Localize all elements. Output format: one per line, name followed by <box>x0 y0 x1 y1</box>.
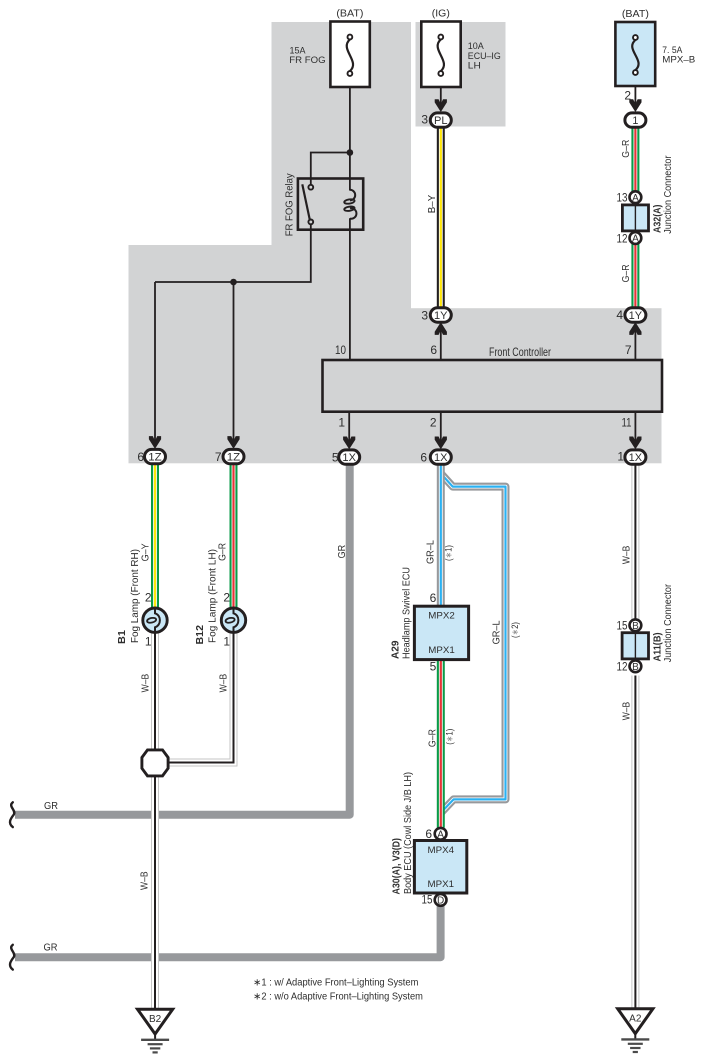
wire fuse ECU-IG to connector PL <box>440 76 442 105</box>
svg-text:B1: B1 <box>117 630 128 644</box>
body ECU A30 pin A circle <box>435 828 447 841</box>
arrow into connector PL <box>435 99 447 112</box>
svg-text:1Z: 1Z <box>227 452 241 464</box>
ground B2 <box>138 1009 173 1052</box>
svg-text:15: 15 <box>422 893 433 907</box>
junction dot at relay feed <box>347 149 354 156</box>
wire GR from Body ECU pin D to left harness (horizontal run) <box>15 906 441 958</box>
wire G-Y from front controller 1Z-6 to fog lamp B1 <box>151 462 159 608</box>
svg-text:W–B: W–B <box>620 702 632 721</box>
svg-text:GR: GR <box>44 941 58 953</box>
arrow into 1Z-7 <box>227 436 239 449</box>
svg-text:MPX–B: MPX–B <box>662 55 695 66</box>
svg-text:Junction Connector: Junction Connector <box>663 155 674 234</box>
svg-text:G–R: G–R <box>620 139 632 157</box>
wire G-R from junction connector A32 pin 12 to front controller 1Y-4 <box>631 244 639 308</box>
svg-text:B12: B12 <box>195 625 206 645</box>
svg-text:2: 2 <box>624 89 631 103</box>
connector oval 1X (pin 1) <box>625 450 646 464</box>
arrow into 1Z-6 <box>149 436 161 449</box>
shaded harness region (10A ECU-IG fuse) <box>416 22 506 127</box>
wire G-R from fuse MPX-B oval 1 to junction connector A32 pin 13 <box>631 127 639 192</box>
svg-text:GR–L: GR–L <box>491 620 503 644</box>
svg-text:1: 1 <box>223 634 230 648</box>
svg-text:2: 2 <box>145 591 152 605</box>
arrow into 1X-6 <box>435 437 447 450</box>
wire branch to connector 1Z-7 (fog lamp LH) <box>233 282 235 442</box>
shaded harness region (15A fuse / relay column) <box>272 22 412 463</box>
svg-text:3: 3 <box>421 308 428 322</box>
svg-text:11: 11 <box>622 416 632 430</box>
svg-text:5: 5 <box>430 660 437 674</box>
svg-text:1Z: 1Z <box>148 452 162 464</box>
svg-text:A11(B): A11(B) <box>652 633 663 662</box>
svg-text:B2: B2 <box>149 1014 162 1025</box>
wire relay junction to switch pin (top) <box>311 153 350 185</box>
fuse 10A ECU-IG LH box <box>421 22 460 88</box>
svg-text:Fog Lamp (Front RH): Fog Lamp (Front RH) <box>130 549 141 643</box>
svg-text:(∗1): (∗1) <box>445 729 455 745</box>
arrow into 1X-1 <box>629 437 641 450</box>
junction connector A32(A) pin 13 circle <box>630 191 642 204</box>
svg-text:1 : w/ Adaptive Front–Lighting: 1 : w/ Adaptive Front–Lighting System <box>261 978 418 989</box>
svg-text:W–B: W–B <box>139 871 151 890</box>
svg-text:6: 6 <box>430 343 437 357</box>
svg-text:∗: ∗ <box>253 991 261 1002</box>
svg-text:1X: 1X <box>629 452 643 464</box>
wire relay switch out to left branch node <box>155 224 311 282</box>
wire G-R (*1) from Headlamp Swivel ECU pin 5 to Body ECU pin A <box>437 658 445 828</box>
svg-text:G–R: G–R <box>427 729 439 747</box>
label 10A ECU-IG LH <box>468 41 501 71</box>
connector oval 1Z (pin 6) <box>145 449 166 463</box>
wire G-R from front controller 1Z-7 to fog lamp B12 <box>230 462 238 608</box>
svg-text:15: 15 <box>617 619 628 633</box>
svg-text:13: 13 <box>617 191 628 205</box>
shaded harness region (front controller band) <box>411 308 662 463</box>
ground A2 <box>618 1009 653 1052</box>
connector oval 1X (pin 5) <box>339 450 360 464</box>
svg-text:∗: ∗ <box>253 978 261 989</box>
svg-text:1Y: 1Y <box>434 310 448 322</box>
svg-text:3: 3 <box>421 113 428 127</box>
svg-text:Headlamp Swivel ECU: Headlamp Swivel ECU <box>401 567 412 659</box>
svg-text:1: 1 <box>617 449 624 463</box>
svg-text:2: 2 <box>223 591 230 605</box>
body ECU A30(A) V3(D) box <box>414 841 466 894</box>
svg-text:Front Controller: Front Controller <box>489 345 551 359</box>
svg-text:12: 12 <box>617 660 628 674</box>
svg-text:PL: PL <box>434 115 448 127</box>
fuse 15A FR FOG element <box>347 35 353 76</box>
body ECU A30 pin D circle <box>435 894 447 907</box>
connector oval 1 below fuse MPX-B <box>625 113 646 127</box>
wire 1Y-3 to front controller pin 6 <box>440 329 442 360</box>
svg-text:B–Y: B–Y <box>426 195 438 213</box>
svg-text:B: B <box>632 662 639 673</box>
wire fuse MPX-B to connector oval 1 <box>634 74 636 105</box>
svg-text:FR FOG: FR FOG <box>289 55 325 66</box>
junction connector A11(B) box <box>622 633 648 659</box>
wire GR-L (*1) from front controller 1X-6 to Headlamp Swivel ECU pin 6 <box>437 463 445 608</box>
svg-text:Body ECU (Cowl Side J/B LH): Body ECU (Cowl Side J/B LH) <box>403 772 414 894</box>
svg-text:(BAT): (BAT) <box>336 7 363 19</box>
svg-text:A: A <box>632 193 639 204</box>
W-B junction octagon <box>142 750 168 776</box>
connector oval 1Z (pin 7) <box>223 449 244 463</box>
svg-text:GR: GR <box>44 800 58 812</box>
junction connector A32(A) pin 12 circle <box>630 232 642 245</box>
svg-text:W–B: W–B <box>620 546 632 565</box>
connector oval PL (pin 3) <box>430 113 451 127</box>
svg-text:(BAT): (BAT) <box>622 8 649 20</box>
wire 1Y-4 to front controller pin 7 <box>634 329 636 360</box>
wire relay coil to front controller pin 10 <box>349 218 351 360</box>
wire label GR-L (*2) <box>491 620 521 644</box>
svg-text:6: 6 <box>137 450 144 464</box>
svg-text:A2: A2 <box>629 1013 642 1024</box>
fuse 7.5A MPX-B element <box>632 35 638 75</box>
junction connector A32(A) box <box>622 205 648 231</box>
svg-text:1Y: 1Y <box>629 310 643 322</box>
svg-text:G–Y: G–Y <box>140 543 152 561</box>
svg-text:10: 10 <box>335 343 346 357</box>
svg-text:4: 4 <box>616 308 623 322</box>
wire label GR-L (*1) <box>425 540 454 564</box>
fuse 7.5A MPX-B box <box>615 22 655 86</box>
svg-text:1: 1 <box>632 115 638 127</box>
svg-text:1X: 1X <box>434 452 448 464</box>
svg-text:LH: LH <box>468 61 481 72</box>
junction dot at left branch <box>230 279 237 286</box>
svg-text:GR–L: GR–L <box>425 540 437 564</box>
arrow into 1X-5 <box>343 437 355 450</box>
svg-text:GR: GR <box>336 544 348 558</box>
svg-text:2: 2 <box>430 416 437 430</box>
svg-text:7: 7 <box>215 450 222 464</box>
wire GR from front controller 1X-5 to left harness (horizontal run) <box>15 463 350 815</box>
wire W-B from fog lamp B12 to W-B junction <box>168 633 234 763</box>
fog lamp B12 bulb <box>221 608 245 633</box>
arrow into connector 1 (MPX-B) <box>629 99 641 112</box>
svg-text:A: A <box>632 234 639 245</box>
wire front controller pin 1 to 1X-5 <box>348 412 350 444</box>
relay FR FOG box <box>298 179 363 230</box>
svg-text:G–R: G–R <box>620 264 632 282</box>
svg-text:W–B: W–B <box>218 674 230 693</box>
svg-text:W–B: W–B <box>140 674 152 693</box>
svg-text:B: B <box>632 621 639 632</box>
svg-text:6: 6 <box>430 591 437 605</box>
svg-text:1: 1 <box>145 634 152 648</box>
svg-text:Fog Lamp (Front LH): Fog Lamp (Front LH) <box>208 549 219 643</box>
svg-text:MPX4: MPX4 <box>428 845 455 856</box>
svg-text:6: 6 <box>425 827 432 841</box>
note *1 adaptive front-lighting <box>253 978 418 989</box>
connector oval 1Y (pin 4) <box>625 308 646 322</box>
svg-text:2 : w/o Adaptive Front–Lightin: 2 : w/o Adaptive Front–Lighting System <box>261 991 423 1002</box>
svg-text:1: 1 <box>338 416 345 430</box>
svg-text:MPX2: MPX2 <box>428 610 455 621</box>
svg-text:(∗1): (∗1) <box>444 545 454 561</box>
svg-text:7: 7 <box>625 343 632 357</box>
wire front controller pin 11 to 1X-1 <box>634 412 636 444</box>
svg-text:FR FOG Relay: FR FOG Relay <box>284 173 295 236</box>
fog lamp B1 bulb <box>143 608 167 633</box>
fuse 10A ECU-IG LH element <box>438 35 444 76</box>
front controller box <box>323 360 663 412</box>
wire W-B from junction connector A11 pin 12 to ground A2 <box>631 676 639 1010</box>
svg-text:MPX1: MPX1 <box>428 645 455 656</box>
svg-text:12: 12 <box>617 231 628 245</box>
connector oval 1X (pin 6) <box>430 450 451 464</box>
svg-text:1X: 1X <box>342 452 356 464</box>
svg-text:A30(A), V3(D): A30(A), V3(D) <box>391 838 402 895</box>
wire GR-L (*2) branch from node 1X-6 to Body ECU pin A <box>441 474 506 813</box>
svg-text:5: 5 <box>332 450 339 464</box>
wire W-B from fog lamp B1 to W-B junction <box>151 633 159 751</box>
relay coil <box>344 190 357 219</box>
wire B-Y from fuse ECU-IG (PL) to front controller 1Y-3 <box>437 127 445 309</box>
wire label G-R (*1) lower <box>427 729 455 747</box>
svg-text:(IG): (IG) <box>432 7 450 19</box>
svg-text:A29: A29 <box>390 640 401 659</box>
label 15A FR FOG <box>289 46 325 67</box>
relay switch contact <box>302 184 313 224</box>
break squiggle GR wire upper <box>10 802 14 827</box>
arrow into 1Y-4 <box>629 322 641 335</box>
wire W-B from right 1X-1 to junction connector A11 pin 15 <box>631 463 639 619</box>
note *2 adaptive front-lighting <box>253 991 423 1002</box>
wire W-B from W-B junction to ground B2 <box>151 776 159 1010</box>
connector oval 1Y (pin 3) <box>430 308 451 322</box>
shaded harness region (left relay branch) <box>129 245 272 463</box>
svg-text:Junction Connector: Junction Connector <box>663 583 674 662</box>
label 7.5A MPX-B <box>662 45 695 66</box>
junction connector A11(B) pin 12 circle <box>630 660 642 673</box>
wire from fuse FR FOG to relay junction and coil <box>349 76 351 191</box>
svg-text:D: D <box>437 896 444 907</box>
arrow into 1Y-3 <box>435 322 447 335</box>
wire front controller pin 2 to 1X-6 <box>440 412 442 444</box>
junction connector A11(B) pin 15 circle <box>630 619 642 632</box>
svg-text:A: A <box>437 829 444 840</box>
headlamp swivel ECU A29 box <box>414 606 468 659</box>
svg-text:6: 6 <box>420 450 427 464</box>
break squiggle GR wire lower <box>10 945 14 970</box>
svg-text:A32(A): A32(A) <box>652 205 663 234</box>
svg-text:(∗2): (∗2) <box>510 622 520 638</box>
fuse 15A FR FOG box <box>330 22 369 88</box>
wire branch to connector 1Z-6 (fog lamp RH) <box>154 282 156 442</box>
svg-text:MPX1: MPX1 <box>428 879 455 890</box>
